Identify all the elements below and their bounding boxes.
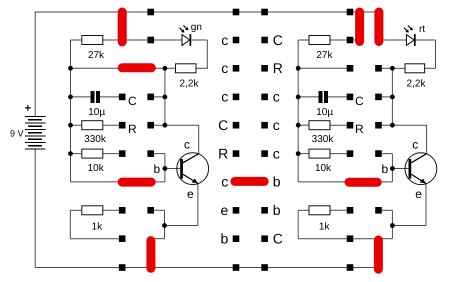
svg-text:2,2k: 2,2k — [180, 78, 200, 89]
junction left bus row3 — [68, 95, 73, 100]
svg-text:b: b — [273, 174, 281, 190]
junction left node row4 — [163, 123, 168, 128]
wire left bus to 10k — [71, 153, 82, 155]
svg-text:c: c — [221, 89, 228, 105]
battery 9V — [25, 117, 45, 150]
svg-text:330k: 330k — [84, 134, 107, 145]
wire right 330k to R contact — [330, 124, 347, 126]
contact row8 left — [119, 235, 126, 242]
resistor 10k left — [82, 149, 103, 158]
junction right bus row5 — [296, 151, 301, 156]
contact row7 right B — [375, 207, 382, 214]
contact row1 right — [347, 37, 354, 44]
wire 2.2k right to LED corner — [425, 67, 436, 69]
contact top rail A — [147, 9, 154, 16]
contact row2 mid c — [233, 65, 240, 72]
svg-text:R: R — [128, 122, 137, 136]
wire 27k right to contact — [330, 39, 347, 41]
wire base branch to red bar — [152, 181, 165, 183]
svg-text:C: C — [355, 94, 364, 108]
wire right contact to collector corner — [382, 124, 427, 126]
svg-text:10k: 10k — [315, 163, 332, 174]
junction left bus row4 — [68, 123, 73, 128]
wire right 1k loop to contact — [298, 238, 347, 240]
jumper red vertical bottom right — [374, 240, 383, 269]
wire LED corner down to 2.2k row — [206, 40, 208, 68]
junction right bus row4 — [296, 123, 301, 128]
wire right emitter branch vertical — [391, 210, 393, 238]
wire LED anode — [154, 39, 182, 41]
contact row3 right C — [347, 94, 354, 101]
capacitor 10u right — [319, 91, 323, 103]
contact row7 mid e — [233, 207, 240, 214]
contact row7 mid b — [261, 207, 268, 214]
LED green gn — [182, 35, 190, 46]
svg-text:b: b — [154, 162, 161, 176]
svg-text:gn: gn — [191, 22, 202, 33]
contact bottom rail D — [347, 264, 354, 271]
wire right bus to red bar row6 — [298, 181, 346, 183]
wire right emitter contact right — [382, 209, 393, 211]
svg-text:2,2k: 2,2k — [407, 78, 427, 89]
wire right bus vertical — [297, 40, 299, 182]
contact row7 right A — [347, 207, 354, 214]
wire C2 contact to collector node — [154, 96, 165, 98]
svg-text:c: c — [273, 117, 280, 133]
wire left collector node vertical — [164, 68, 166, 125]
contact row4 left node — [147, 122, 154, 129]
resistor 27k right — [309, 36, 330, 45]
svg-text:c: c — [221, 32, 228, 48]
svg-text:C: C — [218, 117, 228, 133]
resistor 2.2k right — [405, 64, 425, 73]
jumper red horizontal left row2 — [122, 63, 151, 72]
junction right node row2 — [390, 66, 395, 71]
svg-text:10k: 10k — [88, 163, 105, 174]
wire battery to top rail — [34, 12, 36, 117]
resistor 27k left — [82, 36, 103, 45]
svg-text:R: R — [218, 145, 228, 161]
contact row5 mid R — [233, 150, 240, 157]
wire 330k to R contact — [103, 124, 119, 126]
wire right contact to collector node — [382, 96, 393, 98]
wire 1k right to contact — [103, 209, 119, 211]
resistor 10k right — [309, 149, 330, 158]
wire left emitter vertical — [197, 184, 199, 226]
wire right bus to capacitor — [298, 96, 318, 98]
svg-text:C: C — [273, 231, 283, 247]
wire right 1k left — [298, 209, 309, 211]
svg-text:R: R — [273, 60, 283, 76]
jumper red vertical left top — [118, 12, 127, 42]
wire battery to bottom rail — [34, 149, 36, 268]
wire base branch vertical — [164, 154, 166, 182]
svg-text:R: R — [355, 122, 364, 136]
wire right base lead — [392, 168, 408, 170]
wire right bus to 10k — [298, 153, 309, 155]
contact row4 right R — [347, 122, 354, 129]
contact row1 mid c — [233, 37, 240, 44]
contact bottom rail B — [233, 264, 240, 271]
wire red bar to 2.2k left — [152, 67, 176, 69]
svg-text:C: C — [128, 94, 137, 108]
contact row5 left — [119, 150, 126, 157]
svg-text:c: c — [273, 89, 280, 105]
contact row5 mid c — [261, 150, 268, 157]
wire top supply rail — [35, 11, 379, 13]
wire right emitter horizontal — [392, 225, 426, 227]
contact row5 left b — [147, 150, 154, 157]
svg-text:c: c — [273, 145, 280, 161]
wire right 10k to contact — [330, 153, 347, 155]
svg-text:C: C — [273, 32, 283, 48]
contact row4 right node — [375, 122, 382, 129]
wire capacitor to C contact — [100, 96, 119, 98]
jumper red horizontal right row6 — [349, 178, 377, 187]
resistor 330k left — [82, 121, 103, 130]
wire 1k loop to contact — [70, 238, 119, 240]
wire left bus to 27k — [71, 39, 82, 41]
wire right LED cathode to corner — [416, 39, 436, 41]
resistor 330k right — [309, 121, 330, 130]
contact row8 mid b — [233, 235, 240, 242]
resistor 1k left — [82, 206, 103, 215]
wire right base contact right — [382, 153, 393, 155]
contact row4 mid C — [233, 122, 240, 129]
resistor 2.2k left — [176, 64, 197, 73]
svg-text:330k: 330k — [312, 134, 335, 145]
contact top rail D — [347, 9, 354, 16]
resistor 1k right — [309, 206, 330, 215]
contact row4 left R — [119, 122, 126, 129]
contact row8 right — [347, 235, 354, 242]
svg-text:e: e — [187, 187, 194, 201]
contact bottom rail C — [261, 264, 268, 271]
svg-text:b: b — [273, 202, 281, 218]
svg-text:c: c — [221, 60, 228, 76]
junction left base — [163, 166, 168, 171]
LED red rt — [406, 35, 414, 46]
contact row3 mid c2 — [261, 94, 268, 101]
wire right bus to contact row2 — [298, 67, 347, 69]
contact row3 left node — [147, 94, 154, 101]
junction right bus row2 — [296, 66, 301, 71]
wire right collector vertical — [426, 125, 428, 154]
wire 2.2k junction to box — [392, 67, 405, 69]
svg-text:b: b — [382, 162, 389, 176]
wire right base branch vertical — [391, 154, 393, 182]
junction right node row4 — [390, 123, 395, 128]
wire left bus to 330k — [71, 124, 82, 126]
junction left node row3 — [163, 95, 168, 100]
svg-text:b: b — [221, 231, 229, 247]
wire left bus to capacitor — [71, 96, 91, 98]
svg-text:27k: 27k — [88, 50, 105, 61]
wire red bar to LED anode contact — [126, 39, 147, 41]
wire left emitter horizontal — [165, 225, 198, 227]
wire right 1k right to contact — [330, 209, 347, 211]
wire 1k left — [70, 209, 82, 211]
wire emitter contact right — [154, 209, 165, 211]
wire base lead — [165, 168, 180, 170]
capacitor 10u left — [91, 91, 95, 103]
jumper red horizontal left row6 — [122, 178, 151, 187]
junction right node row3 — [390, 95, 395, 100]
contact row5 right — [347, 150, 354, 157]
wire top corner — [34, 11, 36, 14]
contact row8 mid C — [261, 235, 268, 242]
wire right bus to 27k — [298, 39, 309, 41]
junction left node row2 — [163, 66, 168, 71]
transistor Q1 NPN left — [177, 153, 209, 185]
contact row1 left LED — [147, 37, 154, 44]
wire 10k to contact — [103, 153, 119, 155]
wire base contact right — [154, 153, 165, 155]
contact row3 mid c — [233, 94, 240, 101]
wire bottom supply rail — [35, 267, 378, 269]
contact bottom rail A — [119, 264, 126, 271]
contact row7 left A — [119, 207, 126, 214]
svg-text:10µ: 10µ — [316, 107, 333, 118]
junction right emitter — [390, 223, 395, 228]
svg-text:e: e — [221, 202, 229, 218]
wire left bus vertical — [70, 40, 72, 182]
wire right emitter vertical — [425, 184, 427, 226]
svg-text:e: e — [415, 187, 422, 201]
wire right collector node vertical — [391, 68, 393, 125]
wire contact to red bar right — [353, 39, 356, 41]
contact row3 right node — [375, 94, 382, 101]
wire 27k to red bar — [103, 39, 119, 41]
wire right 1k loop down — [297, 210, 299, 238]
wire right emitter branch to red bar — [381, 238, 393, 240]
wire emitter branch to red bar — [152, 238, 165, 240]
svg-text:1k: 1k — [319, 221, 331, 232]
svg-text:c: c — [412, 137, 418, 151]
wire left bus to red bar row2 — [71, 67, 120, 69]
jumper red vertical right top 2 — [374, 12, 383, 42]
contact row3 left C — [119, 94, 126, 101]
svg-text:+: + — [25, 103, 31, 115]
jumper red vertical bottom left — [146, 241, 155, 269]
svg-text:c: c — [221, 174, 228, 190]
svg-text:rt: rt — [419, 24, 425, 35]
wire right bus to 330k — [298, 124, 309, 126]
svg-text:10µ: 10µ — [88, 107, 105, 118]
wire emitter branch vertical — [164, 210, 166, 238]
svg-text:27k: 27k — [316, 50, 333, 61]
wire contact to 2.2k junction — [382, 67, 393, 69]
junction right bus row3 — [296, 95, 301, 100]
svg-text:c: c — [184, 137, 190, 151]
svg-text:1k: 1k — [92, 221, 104, 232]
contact row2 right A — [347, 65, 354, 72]
wire contact to collector corner — [154, 124, 199, 126]
junction left bus row2 — [68, 66, 73, 71]
contact row4 mid c — [261, 122, 268, 129]
wire LED cathode to corner — [191, 39, 207, 41]
wire 2.2k right — [196, 67, 208, 69]
contact row2 right B — [375, 65, 382, 72]
transistor Q2 NPN right — [405, 153, 437, 185]
junction left bus row5 — [68, 151, 73, 156]
jumper red vertical right top 1 — [355, 12, 364, 42]
wire 1k loop down — [69, 210, 71, 238]
contact row1 mid C — [261, 37, 268, 44]
wire right base branch to red bar — [378, 181, 392, 183]
contact row5 right b — [375, 150, 382, 157]
wire right LED corner down — [435, 40, 437, 68]
wire collector vertical — [198, 125, 200, 154]
jumper red horizontal middle row6 — [235, 177, 264, 186]
junction left emitter — [162, 223, 167, 228]
wire right contact to red bar row8 — [353, 238, 375, 240]
wire right capacitor to contact — [328, 96, 347, 98]
junction right base — [390, 166, 395, 171]
svg-text:9 V: 9 V — [10, 128, 24, 138]
contact top rail B — [233, 9, 240, 16]
contact top rail C — [261, 9, 268, 16]
wire red bar2 to LED anode — [383, 39, 406, 41]
wire left bus to red bar row6 — [71, 181, 121, 183]
contact row2 mid R — [261, 65, 268, 72]
contact row7 left B — [147, 207, 154, 214]
